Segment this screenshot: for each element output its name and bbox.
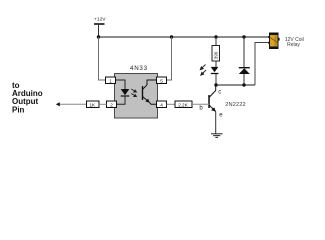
wire arduino arrow [57,103,87,105]
interior phototransistor [143,80,157,104]
node diode top junction [242,35,245,38]
ground [211,134,223,138]
svg-text:2N2222: 2N2222 [225,102,246,108]
optocoupler U1 body [115,74,158,119]
LED D1 [211,67,219,74]
svg-text:1K: 1K [90,102,97,107]
LED emission arrows [200,65,206,76]
label 12V Coil Relay [285,37,304,48]
interior light arrows [131,89,136,97]
interior LED [121,89,130,96]
svg-text:Pin: Pin [12,105,25,114]
wire 2.2K to base [192,103,209,105]
wire diode bottom lead [243,74,245,85]
interior LED bottom wire [117,96,126,104]
wire pin4 to 2.2K [167,103,176,105]
svg-text:5: 5 [160,78,163,83]
wire R390 top lead [215,37,217,46]
svg-text:2: 2 [110,102,113,107]
wire pin5 riser [167,37,172,80]
node junction rail left [97,35,100,38]
svg-text:1: 1 [109,78,112,83]
wire diode top lead [243,37,245,68]
svg-text:+12V: +12V [94,17,106,23]
pin 1 box [106,77,116,84]
svg-text:390: 390 [214,51,219,59]
interior LED wiring [116,80,126,89]
node collector junction [214,83,217,86]
svg-text:2.2K: 2.2K [178,102,188,107]
wire +12V stub [98,24,100,37]
resistor R 1K [87,101,100,108]
wire 1K to pin2 [99,103,107,105]
diode D2 flyback [239,68,250,74]
pin 4 box [157,101,167,108]
transistor Q1 2N2222 [209,85,216,112]
node pin5 riser junction [170,35,173,38]
svg-text:Relay: Relay [287,42,300,48]
pin 2 box [107,101,117,108]
wire emitter to ground [215,112,217,134]
wire +12V rail [99,36,270,38]
svg-text:4N33: 4N33 [130,65,148,72]
power +12V bar [94,23,105,25]
node R390 junction [214,35,217,38]
wire LED to collector line [215,74,217,85]
svg-text:c: c [218,90,221,96]
relay K1 [268,33,279,49]
wire pin1 drop [99,37,106,80]
resistor R390 [212,46,220,62]
pin 5 box [157,77,167,84]
resistor R 2.2K [175,101,192,108]
svg-text:4: 4 [160,102,163,107]
node diode collector junction [242,83,245,86]
wire collector line [216,84,255,86]
label to Arduino Output Pin [12,81,43,114]
wire relay riser [255,43,270,86]
wire R390 to LED [215,61,217,68]
